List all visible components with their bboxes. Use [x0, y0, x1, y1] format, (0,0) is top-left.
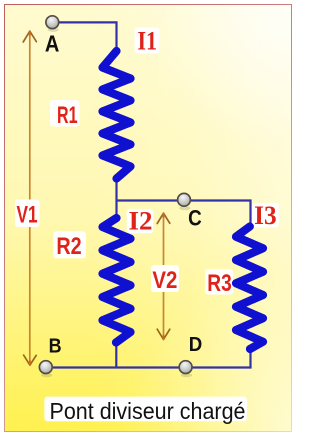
svg-text:R2: R2	[56, 233, 81, 260]
svg-text:I3: I3	[254, 201, 277, 230]
svg-text:R1: R1	[57, 102, 78, 129]
svg-text:I2: I2	[129, 207, 153, 236]
svg-text:Pont diviseur chargé: Pont diviseur chargé	[50, 398, 246, 424]
svg-text:C: C	[188, 206, 202, 231]
svg-text:I1: I1	[137, 27, 157, 56]
svg-text:V2: V2	[152, 267, 177, 294]
svg-text:A: A	[45, 30, 60, 56]
svg-text:R3: R3	[207, 270, 232, 297]
svg-text:V1: V1	[17, 202, 38, 229]
svg-text:D: D	[189, 334, 203, 356]
svg-text:B: B	[49, 335, 62, 357]
